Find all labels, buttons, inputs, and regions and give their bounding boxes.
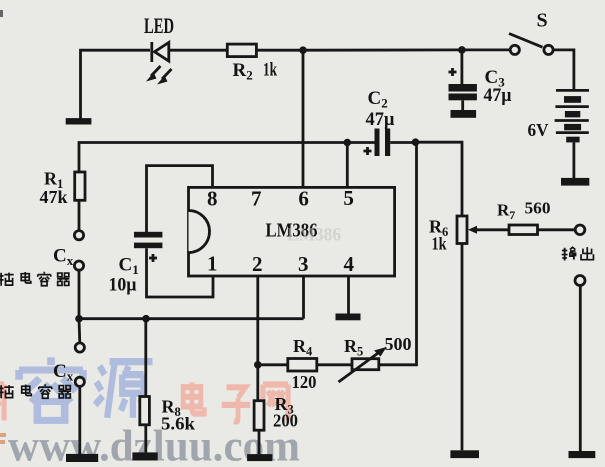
node: pin2 / R4 / R3 junction	[254, 361, 262, 369]
potentiometer R6	[457, 216, 477, 244]
wire: switch to battery positive	[553, 50, 574, 90]
label: output (CJK)	[562, 247, 594, 260]
svg-text:120: 120	[292, 372, 317, 392]
wire: pin2 descender	[256, 276, 259, 365]
resistor R1	[75, 172, 85, 200]
ground: C3	[451, 110, 477, 118]
rheostat R5	[339, 347, 387, 382]
label: U1 LM386	[266, 219, 342, 245]
ground: output	[569, 451, 596, 458]
wire: LED cathode to R2	[169, 49, 228, 52]
capacitor C2 47u	[364, 129, 391, 157]
wire: Cx terminal to left node	[78, 270, 81, 319]
capacitor C3 47u	[449, 68, 477, 111]
svg-text:200: 200	[273, 411, 298, 431]
wire: Cx lower terminal to ground	[78, 386, 81, 454]
node: left rail junction	[75, 315, 83, 323]
svg-text:560: 560	[525, 199, 551, 218]
wire: pin5 node to C2	[347, 141, 374, 144]
wire: pin4 to ground	[347, 276, 350, 314]
wire: node to R4	[258, 363, 288, 366]
node: C2 right junction	[412, 138, 420, 146]
wire: C3 node to switch	[462, 49, 510, 52]
wire: pin5 riser	[346, 143, 349, 188]
terminal: Cx lower pair bottom	[75, 377, 84, 386]
svg-text:500: 500	[385, 334, 412, 354]
node: top rail / pin6 riser junction	[299, 46, 307, 54]
svg-text:6V: 6V	[528, 120, 549, 140]
svg-text:LM386: LM386	[287, 225, 341, 246]
wire: R3 to ground	[258, 430, 261, 454]
wire: input rail to pin3	[79, 317, 304, 320]
op-amp U1 LM386 body	[189, 187, 395, 276]
wire: left node to Cx lower terminal	[78, 319, 82, 343]
label: insert-capacitor upper (CJK)	[0, 272, 69, 286]
svg-text:3: 3	[298, 252, 309, 276]
resistor R7	[509, 225, 538, 235]
ground: LED branch ground bar	[66, 118, 92, 124]
label: insert-capacitor lower (CJK)	[0, 384, 71, 398]
wire: R6 bottom to ground	[461, 244, 464, 451]
ground: pin4	[336, 314, 361, 321]
svg-text:1k: 1k	[432, 234, 447, 254]
svg-text:7: 7	[251, 187, 262, 211]
capacitor C1 10u	[134, 232, 162, 262]
ground: R6	[450, 450, 479, 458]
terminal: output top	[575, 225, 585, 235]
svg-text:S: S	[537, 10, 548, 32]
ground: left column	[66, 454, 98, 462]
wire: pin6 node to C3 node	[303, 49, 462, 52]
terminal: Cx upper pair top	[74, 231, 83, 240]
svg-text:5.6k: 5.6k	[161, 414, 195, 434]
svg-text:5: 5	[343, 186, 354, 210]
wire: R8 to ground	[144, 425, 147, 453]
wire: C2 node to R6 top	[416, 142, 463, 216]
node: input rail / R8 junction	[142, 315, 150, 323]
wire: R4 to R5	[317, 363, 352, 366]
svg-text:8: 8	[207, 187, 218, 211]
battery 6V	[555, 90, 589, 178]
ground: R3	[247, 454, 272, 461]
wire: pin8 riser to C1 top	[147, 166, 213, 232]
resistor R4	[288, 359, 317, 372]
wire: R2 to pin6 node	[256, 49, 303, 52]
svg-text:LED: LED	[144, 13, 174, 38]
wire: mid rail from R1 top right to pin5 node	[79, 143, 347, 172]
svg-text:2: 2	[252, 252, 263, 276]
terminal: output bottom	[575, 276, 585, 286]
svg-text:47µ: 47µ	[366, 109, 395, 130]
wire: R3 junction down to R3	[256, 365, 259, 401]
LED indicator diode	[146, 42, 172, 85]
switch S	[509, 34, 553, 55]
terminal: Cx upper pair bottom	[74, 261, 83, 270]
wire: R7 to output terminal	[538, 228, 576, 231]
resistor R3	[254, 401, 264, 431]
svg-text:1k: 1k	[263, 60, 277, 81]
wire: pin3 descender	[302, 276, 305, 319]
wire: R8 junction down to R8	[144, 319, 147, 397]
resistor R8	[140, 397, 150, 425]
wire: R1 to Cx terminal	[78, 200, 81, 231]
ground: battery negative	[561, 178, 589, 186]
svg-text:1: 1	[207, 252, 218, 276]
wire: C1 bottom to pin1	[147, 248, 214, 297]
wire: pin6 riser	[302, 50, 305, 187]
op-amp U1 notch	[189, 211, 210, 253]
wire: C2 node down to R5 right end	[379, 142, 417, 365]
wire: output bottom terminal to ground	[579, 285, 582, 451]
ground: R8	[132, 452, 157, 460]
wire: R6 wiper to R7	[475, 228, 509, 231]
svg-text:10µ: 10µ	[109, 275, 137, 296]
terminal: Cx lower pair top	[75, 343, 84, 352]
node: mid rail / pin5 junction	[344, 139, 352, 147]
node: top rail / C3 junction	[458, 46, 466, 54]
svg-text:4: 4	[344, 252, 355, 276]
svg-text:6: 6	[298, 187, 309, 211]
svg-text:47k: 47k	[40, 187, 68, 207]
wire: left branch from LED ground up to top rail and LED anode	[81, 50, 151, 118]
wire: C2 to C2-right node	[390, 141, 415, 144]
svg-text:47µ: 47µ	[484, 85, 512, 106]
wire: C3 node down to C3	[460, 50, 463, 85]
resistor R2	[227, 44, 256, 57]
